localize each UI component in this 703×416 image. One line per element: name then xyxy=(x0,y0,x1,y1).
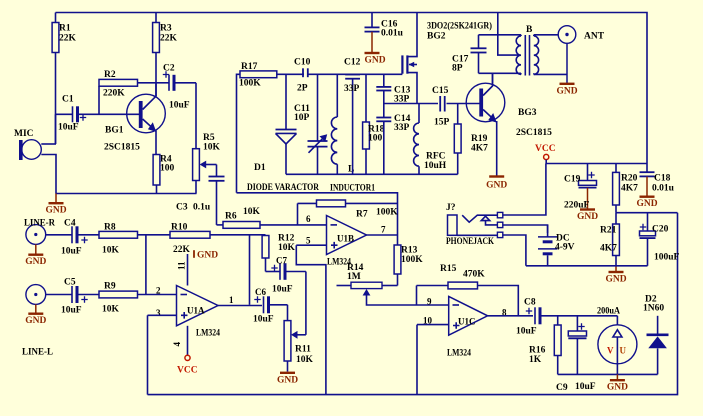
svg-text:VCC: VCC xyxy=(177,366,198,376)
pin 10 xyxy=(423,316,433,326)
label C9 10uF xyxy=(556,382,596,393)
svg-text:3: 3 xyxy=(156,308,161,318)
capacitor C1 xyxy=(56,106,140,122)
svg-text:C20: C20 xyxy=(652,225,669,235)
svg-text:4K7: 4K7 xyxy=(621,184,638,194)
svg-text:2P: 2P xyxy=(297,84,308,94)
svg-text:GND: GND xyxy=(25,257,46,267)
svg-text:GND: GND xyxy=(605,275,626,285)
resistor R18 xyxy=(363,74,370,174)
svg-text:0.01u: 0.01u xyxy=(652,184,675,194)
wire feedback node to U1A output xyxy=(249,235,251,305)
label C8 10uF xyxy=(516,298,537,337)
svg-text:MIC: MIC xyxy=(14,129,34,139)
diode D2 xyxy=(647,316,669,375)
label R21 4K7 xyxy=(600,226,617,254)
svg-text:C6: C6 xyxy=(255,287,266,297)
label C14 33P xyxy=(394,114,411,133)
varactor diode D1 xyxy=(276,74,297,174)
svg-text:2SC1815: 2SC1815 xyxy=(104,143,140,153)
svg-text:R1: R1 xyxy=(59,24,71,34)
svg-text:22K: 22K xyxy=(173,245,191,255)
label C17 8P xyxy=(452,55,469,74)
pin 7 xyxy=(381,225,386,235)
label C10 2P xyxy=(294,58,311,94)
svg-text:0.1u: 0.1u xyxy=(193,203,211,213)
svg-text:9: 9 xyxy=(427,297,432,307)
label BG3 2SC1815 xyxy=(516,108,552,138)
svg-text:GND: GND xyxy=(197,251,218,261)
label U1C LM324 xyxy=(447,349,471,359)
wire VCC rail to VCC terminal xyxy=(546,163,647,165)
op-amp U1C xyxy=(449,296,488,335)
label LINE-L xyxy=(22,348,53,358)
svg-text:U1A: U1A xyxy=(187,306,205,316)
svg-text:C15: C15 xyxy=(432,86,449,96)
svg-text:1: 1 xyxy=(229,295,234,305)
svg-text:V: V xyxy=(607,346,614,356)
MOSFET BG2 xyxy=(401,13,417,104)
label R12 10K xyxy=(278,234,296,253)
label R11 10K xyxy=(295,345,314,366)
wire pin3 to bias rail xyxy=(148,315,177,394)
svg-text:10uF: 10uF xyxy=(61,247,82,257)
capacitor C4 xyxy=(72,226,99,243)
capacitor C16 xyxy=(365,13,380,53)
svg-text:1M: 1M xyxy=(347,272,361,282)
label C1 10uF xyxy=(58,95,79,133)
ground C18 GND xyxy=(636,197,657,210)
pin 6 xyxy=(306,214,311,224)
pin 3 xyxy=(156,308,161,318)
wire mic ground rail xyxy=(56,193,197,195)
svg-text:10K: 10K xyxy=(296,355,314,365)
line input jack LINE-L xyxy=(26,285,72,305)
svg-text:GND: GND xyxy=(556,86,577,96)
wire mic node up to C1 row xyxy=(55,114,57,144)
wire meter network bottom xyxy=(558,373,658,375)
resistor R3 xyxy=(153,13,160,53)
label R9 10K xyxy=(102,282,120,315)
svg-text:R10: R10 xyxy=(171,223,188,233)
svg-text:7: 7 xyxy=(381,225,386,235)
pin 4 xyxy=(172,342,182,347)
svg-text:R3: R3 xyxy=(160,24,172,34)
svg-text:100K: 100K xyxy=(401,255,423,265)
label L xyxy=(348,165,354,175)
label BG1 2SC1815 xyxy=(104,126,140,153)
svg-text:470K: 470K xyxy=(463,270,485,280)
capacitor C10 xyxy=(303,68,402,77)
capacitor C19 xyxy=(579,164,597,209)
svg-text:200uA: 200uA xyxy=(597,307,620,317)
transistor BG1 xyxy=(127,83,166,155)
svg-text:4K7: 4K7 xyxy=(600,244,617,254)
ground ANT GND xyxy=(556,84,577,97)
ground C19 GND xyxy=(577,210,598,223)
resistor R10 xyxy=(170,231,266,238)
label J? PHONEJACK xyxy=(446,203,494,247)
svg-text:GND: GND xyxy=(636,199,657,209)
svg-text:22K: 22K xyxy=(160,34,178,44)
resistor R16 xyxy=(554,316,561,375)
svg-text:0.01u: 0.01u xyxy=(381,29,404,39)
svg-text:6: 6 xyxy=(306,214,311,224)
svg-text:R5: R5 xyxy=(203,133,215,143)
label C6 10uF xyxy=(253,287,274,325)
label U1A LM324 xyxy=(196,329,220,339)
svg-text:DIODE VARACTOR: DIODE VARACTOR xyxy=(247,183,319,193)
ground C16 GND xyxy=(364,53,385,65)
capacitor C12 xyxy=(345,75,360,175)
svg-text:LINE-R: LINE-R xyxy=(24,219,55,229)
label C7 10uF xyxy=(272,256,293,295)
svg-text:PHONEJACK: PHONEJACK xyxy=(446,237,494,247)
svg-text:2: 2 xyxy=(156,286,161,296)
wire jack sleeve to negative rail xyxy=(503,235,526,266)
wire R21 gnd stub xyxy=(615,266,617,272)
svg-text:GND: GND xyxy=(577,212,598,222)
wire tank bottom rail xyxy=(286,173,458,175)
label BG2 3DO2(2SK241GR) xyxy=(427,21,492,42)
ground BG3 emitter GND xyxy=(486,177,507,191)
op-amp U1B xyxy=(327,216,367,255)
svg-text:R13: R13 xyxy=(401,246,418,256)
ground mic rail GND xyxy=(45,194,66,216)
svg-text:11: 11 xyxy=(177,261,187,270)
transistor BG3 xyxy=(466,73,505,176)
svg-text:R6: R6 xyxy=(225,212,237,222)
svg-text:R15: R15 xyxy=(440,264,457,274)
resistor R17 xyxy=(237,71,305,193)
pin 1 xyxy=(229,295,234,305)
label R14 1M xyxy=(347,263,364,282)
wire U1B output pin7 xyxy=(367,234,398,236)
svg-text:C4: C4 xyxy=(64,219,76,229)
wire secondary top to antenna xyxy=(534,34,558,36)
svg-text:R19: R19 xyxy=(471,134,488,144)
svg-text:BG3: BG3 xyxy=(518,108,537,118)
label R6 10K xyxy=(225,207,261,222)
label R1 22K xyxy=(59,24,77,44)
svg-text:R16: R16 xyxy=(529,346,546,356)
wire R1 bottom to mic node xyxy=(55,53,57,145)
capacitor C14 xyxy=(376,118,391,175)
capacitor C2 xyxy=(156,71,196,91)
svg-text:VCC: VCC xyxy=(535,144,556,154)
label C16 0.01u xyxy=(381,20,404,39)
label R8 10K xyxy=(102,223,120,256)
power terminal VCC xyxy=(535,144,556,164)
capacitor C9 xyxy=(568,316,586,375)
svg-text:100K: 100K xyxy=(239,79,261,89)
svg-text:10K: 10K xyxy=(203,143,221,153)
svg-text:ANT: ANT xyxy=(584,32,605,42)
label C13 33P xyxy=(394,86,411,105)
capacitor C17 xyxy=(471,35,487,74)
svg-text:10K: 10K xyxy=(278,243,296,253)
label MIC xyxy=(14,129,34,139)
resistor R2 xyxy=(99,79,156,114)
svg-text:10K: 10K xyxy=(243,207,261,217)
capacitor C18 xyxy=(640,164,655,197)
svg-text:C7: C7 xyxy=(276,256,287,266)
resistor R19 xyxy=(454,104,461,175)
resistor R9 xyxy=(99,291,138,298)
label D1 xyxy=(254,163,266,173)
label R20 4K7 xyxy=(621,174,638,194)
wire R20-R21 divider node xyxy=(616,212,678,214)
svg-text:10uF: 10uF xyxy=(169,101,190,111)
resistor R15 xyxy=(417,282,519,316)
meter 200uA xyxy=(598,316,637,375)
svg-text:R20: R20 xyxy=(621,174,638,184)
svg-text:10uF: 10uF xyxy=(575,382,596,392)
capacitor C15 xyxy=(440,96,479,112)
label DIODE VARACTOR INDUCTOR1 xyxy=(247,183,375,194)
svg-text:100: 100 xyxy=(368,134,383,144)
line input jack LINE-R xyxy=(26,225,72,245)
svg-text:C10: C10 xyxy=(294,58,311,68)
resistor R1 xyxy=(52,13,59,53)
label U1B LM324 xyxy=(327,258,351,268)
capacitor C6 xyxy=(254,296,287,313)
resistor R7 xyxy=(298,200,398,225)
svg-text:100uF: 100uF xyxy=(654,253,680,263)
svg-text:10K: 10K xyxy=(102,305,120,315)
inductor RFC xyxy=(414,104,419,175)
wire transformer primary sides xyxy=(479,35,522,84)
svg-text:C9: C9 xyxy=(556,383,568,393)
microphone MIC xyxy=(19,140,56,194)
svg-text:33P: 33P xyxy=(394,123,410,133)
resistor R20 xyxy=(613,164,620,213)
wire U1A output xyxy=(218,305,262,307)
label D2 1N60 xyxy=(643,295,664,314)
svg-text:4: 4 xyxy=(172,342,182,347)
svg-text:GND: GND xyxy=(45,206,66,216)
svg-text:4K7: 4K7 xyxy=(471,144,488,154)
svg-text:10uF: 10uF xyxy=(272,285,293,295)
svg-text:J?: J? xyxy=(446,203,456,213)
label R18 100 xyxy=(368,125,385,144)
wire R9 to U1A pin2 xyxy=(138,294,177,296)
label C4 10uF xyxy=(61,219,82,257)
label R16 1K xyxy=(529,346,546,366)
svg-text:BG2: BG2 xyxy=(427,32,446,42)
ground R21 GND xyxy=(605,272,626,285)
wire C3 to R6 xyxy=(217,224,224,226)
svg-text:R8: R8 xyxy=(104,223,116,233)
svg-text:R21: R21 xyxy=(600,226,617,236)
svg-text:4-9V: 4-9V xyxy=(555,243,575,253)
phone jack J? xyxy=(448,212,503,237)
svg-text:GND: GND xyxy=(607,383,628,393)
label ANT xyxy=(584,32,605,42)
label 200uA xyxy=(597,307,620,317)
label R10 22K xyxy=(171,223,191,256)
label R2 220K xyxy=(103,70,125,99)
battery DC 4-9V xyxy=(538,225,557,266)
wire bottom bias rail and right edge xyxy=(148,213,678,395)
svg-text:R17: R17 xyxy=(241,62,258,72)
label B xyxy=(526,25,533,35)
ground LINE-L GND xyxy=(25,304,46,326)
resistor R8 xyxy=(99,231,138,238)
label R4 100 xyxy=(160,155,175,174)
svg-text:C12: C12 xyxy=(344,58,361,68)
svg-text:22K: 22K xyxy=(59,34,77,44)
svg-text:U: U xyxy=(620,346,627,356)
svg-text:100: 100 xyxy=(160,164,175,174)
resistor R13 xyxy=(394,245,401,286)
label C20 100uF xyxy=(652,225,680,263)
svg-text:10uH: 10uH xyxy=(424,161,447,171)
svg-text:LINE-L: LINE-L xyxy=(22,348,53,358)
antenna jack ANT xyxy=(558,26,576,44)
wire R6 to U1B pin6 xyxy=(260,224,327,226)
svg-text:INDUCTOR1: INDUCTOR1 xyxy=(330,184,375,194)
svg-text:LM324: LM324 xyxy=(447,349,471,359)
transformer B xyxy=(516,35,538,76)
wire pin 4 down xyxy=(187,326,189,355)
svg-text:10uF: 10uF xyxy=(58,123,79,133)
trimmer capacitor C11 xyxy=(308,74,328,174)
resistor R12 xyxy=(262,236,269,272)
capacitor C13 xyxy=(376,74,391,117)
svg-text:R2: R2 xyxy=(104,70,116,80)
wire pin 11 up xyxy=(187,254,189,286)
wire secondary bottom and ANT down xyxy=(534,43,567,83)
potentiometer R5 xyxy=(193,83,217,194)
wire VCC top rail xyxy=(56,13,648,164)
label C3 0.1u xyxy=(176,203,211,213)
wire R3 bottom / BG1 collector stub xyxy=(155,53,157,97)
label DC 4-9V xyxy=(555,234,575,253)
svg-text:10uF: 10uF xyxy=(253,315,274,325)
pin 2 xyxy=(156,286,161,296)
capacitor C3 xyxy=(209,165,225,225)
svg-text:10uF: 10uF xyxy=(516,327,537,337)
svg-text:GND: GND xyxy=(486,181,507,191)
svg-text:R11: R11 xyxy=(295,345,311,355)
label R19 4K7 xyxy=(471,134,488,154)
svg-text:C18: C18 xyxy=(654,174,671,184)
label C5 10uF xyxy=(61,278,82,316)
svg-text:C2: C2 xyxy=(163,64,175,74)
svg-text:LM324: LM324 xyxy=(196,329,220,339)
wire pin10 to bias rail xyxy=(417,325,449,395)
potentiometer R11 xyxy=(284,305,306,372)
svg-text:100K: 100K xyxy=(376,208,398,218)
wire R8 to summing junction xyxy=(138,235,171,295)
label C2 10uF xyxy=(163,64,190,111)
svg-text:GND: GND xyxy=(25,316,46,326)
svg-text:10K: 10K xyxy=(102,246,120,256)
wire battery negative rail xyxy=(526,265,648,267)
label C18 0.01u xyxy=(652,174,675,194)
potentiometer R14 xyxy=(337,282,449,305)
svg-text:C5: C5 xyxy=(64,278,76,288)
label R15 470K xyxy=(440,264,485,280)
wire top rail to primary center tap xyxy=(498,13,519,56)
svg-text:5: 5 xyxy=(306,236,311,246)
svg-text:C19: C19 xyxy=(564,175,581,185)
power terminal VCC U1A xyxy=(177,355,198,375)
capacitor C7 xyxy=(266,263,306,335)
op-amp U1A xyxy=(177,286,219,326)
wire U1C output pin8 xyxy=(488,315,533,317)
label C15 15P xyxy=(432,86,450,128)
svg-text:15P: 15P xyxy=(434,118,450,128)
resistor R6 xyxy=(223,222,260,229)
ground meter GND xyxy=(607,374,628,392)
label meter V U xyxy=(607,346,627,356)
svg-text:2SC1815: 2SC1815 xyxy=(516,128,552,138)
label R3 22K xyxy=(160,24,178,44)
ground U1A pin11 GND flag xyxy=(194,250,218,260)
svg-text:8P: 8P xyxy=(452,64,463,74)
svg-text:1K: 1K xyxy=(529,355,542,365)
svg-text:C8: C8 xyxy=(524,298,536,308)
label C19 220uF xyxy=(564,175,590,211)
svg-text:10uF: 10uF xyxy=(61,306,82,316)
label R7 100K xyxy=(356,208,398,220)
svg-text:220K: 220K xyxy=(103,89,125,99)
svg-text:R7: R7 xyxy=(356,210,368,220)
svg-text:10P: 10P xyxy=(294,113,310,123)
svg-text:GND: GND xyxy=(364,55,385,65)
pin 8 xyxy=(502,308,507,318)
svg-text:R9: R9 xyxy=(104,282,116,292)
svg-text:D1: D1 xyxy=(254,163,266,173)
svg-text:U1C: U1C xyxy=(458,317,476,327)
wire modulation line R17 to U1B output node xyxy=(237,193,398,245)
resistor R21 xyxy=(613,213,620,266)
svg-text:1N60: 1N60 xyxy=(643,304,664,314)
label C12 33P xyxy=(344,58,361,95)
label C11 10P xyxy=(294,104,310,123)
label LINE-R xyxy=(24,219,55,229)
ground R11 GND xyxy=(277,373,298,386)
svg-text:3DO2(2SK241GR): 3DO2(2SK241GR) xyxy=(427,21,492,32)
wire C13-C14 tap to C15 xyxy=(384,103,438,105)
ground LINE-R GND xyxy=(25,244,46,267)
wire pin5 to bias rail xyxy=(296,245,326,394)
inductor L xyxy=(331,74,337,174)
svg-text:U1B: U1B xyxy=(337,234,354,244)
svg-text:C1: C1 xyxy=(62,95,74,105)
svg-text:33P: 33P xyxy=(344,84,360,94)
label R13 100K xyxy=(401,246,423,266)
wire jack ring to battery plus xyxy=(503,225,548,233)
resistor R4 xyxy=(153,155,160,194)
capacitor C5 xyxy=(72,286,99,303)
capacitor C20 xyxy=(640,213,656,266)
label RFC 10uH xyxy=(424,152,447,171)
pin 9 xyxy=(427,297,432,307)
pin 11 xyxy=(177,261,187,270)
wire jack tip to VCC rail xyxy=(503,164,546,216)
capacitor C8 xyxy=(526,307,618,324)
svg-text:B: B xyxy=(526,25,533,35)
pin 5 xyxy=(306,236,311,246)
label R17 100K xyxy=(239,62,261,89)
svg-text:BG1: BG1 xyxy=(105,126,124,136)
svg-text:GND: GND xyxy=(277,375,298,385)
label R5 10K xyxy=(203,133,221,153)
svg-text:C3: C3 xyxy=(176,203,188,213)
